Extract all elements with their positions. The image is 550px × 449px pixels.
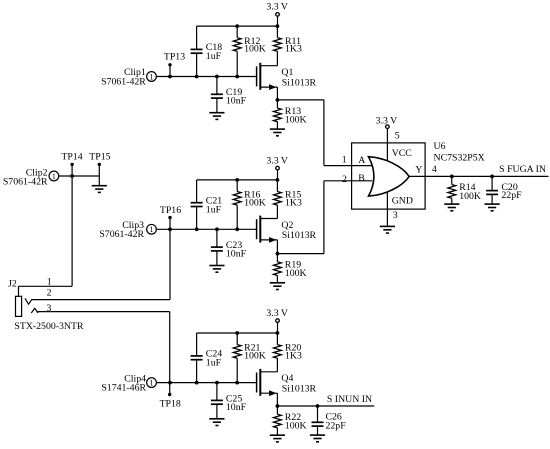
- svg-text:A: A: [358, 155, 365, 166]
- svg-text:3.3 V: 3.3 V: [266, 155, 288, 166]
- svg-text:2: 2: [342, 174, 347, 185]
- svg-text:3: 3: [47, 303, 52, 314]
- svg-text:TP16: TP16: [160, 205, 181, 216]
- svg-text:NC7S32P5X: NC7S32P5X: [434, 152, 485, 163]
- svg-text:TP18: TP18: [160, 398, 181, 409]
- svg-text:1: 1: [47, 276, 52, 287]
- svg-text:1uF: 1uF: [206, 51, 222, 62]
- svg-text:S FUGA IN: S FUGA IN: [499, 164, 546, 175]
- svg-text:3.3 V: 3.3 V: [266, 2, 288, 13]
- svg-text:10nF: 10nF: [226, 249, 247, 260]
- svg-text:Si1013R: Si1013R: [282, 230, 317, 241]
- svg-text:5: 5: [395, 130, 400, 141]
- svg-text:1: 1: [52, 172, 56, 181]
- svg-text:3.3 V: 3.3 V: [266, 308, 288, 319]
- svg-text:S1741-46R: S1741-46R: [101, 383, 146, 394]
- svg-text:1: 1: [342, 155, 347, 166]
- svg-text:4: 4: [432, 164, 437, 175]
- svg-text:1uF: 1uF: [206, 204, 222, 215]
- svg-text:GND: GND: [392, 195, 413, 206]
- svg-text:B: B: [358, 173, 365, 184]
- svg-text:100K: 100K: [459, 191, 481, 202]
- svg-text:1uF: 1uF: [206, 358, 222, 369]
- svg-text:1: 1: [150, 378, 154, 387]
- svg-text:Y: Y: [415, 165, 422, 176]
- svg-text:S7061-42R: S7061-42R: [99, 229, 144, 240]
- svg-text:1K3: 1K3: [285, 197, 302, 208]
- svg-text:10nF: 10nF: [226, 96, 247, 107]
- svg-text:100K: 100K: [244, 44, 266, 55]
- svg-text:TP13: TP13: [164, 52, 185, 63]
- svg-text:U6: U6: [434, 141, 446, 152]
- svg-text:TP14: TP14: [61, 152, 82, 163]
- svg-text:100K: 100K: [244, 350, 266, 361]
- svg-text:Si1013R: Si1013R: [282, 77, 317, 88]
- svg-text:100K: 100K: [285, 115, 307, 126]
- svg-text:1K3: 1K3: [285, 44, 302, 55]
- svg-text:VCC: VCC: [392, 148, 412, 159]
- svg-text:1: 1: [150, 225, 154, 234]
- svg-text:22pF: 22pF: [501, 190, 522, 201]
- svg-text:100K: 100K: [285, 421, 307, 432]
- svg-text:100K: 100K: [244, 197, 266, 208]
- svg-text:S7061-42R: S7061-42R: [3, 176, 48, 187]
- svg-text:10nF: 10nF: [226, 402, 247, 413]
- svg-text:TP15: TP15: [89, 152, 110, 163]
- svg-text:STX-2500-3NTR: STX-2500-3NTR: [14, 321, 84, 332]
- svg-text:2: 2: [47, 288, 52, 299]
- svg-text:1: 1: [150, 72, 154, 81]
- svg-text:3: 3: [393, 210, 398, 221]
- svg-text:Si1013R: Si1013R: [282, 383, 317, 394]
- svg-text:J2: J2: [8, 278, 17, 289]
- svg-text:100K: 100K: [285, 268, 307, 279]
- svg-text:S INUN IN: S INUN IN: [327, 394, 372, 405]
- svg-text:S7061-42R: S7061-42R: [101, 76, 146, 87]
- svg-text:22pF: 22pF: [326, 420, 347, 431]
- svg-text:1K3: 1K3: [285, 350, 302, 361]
